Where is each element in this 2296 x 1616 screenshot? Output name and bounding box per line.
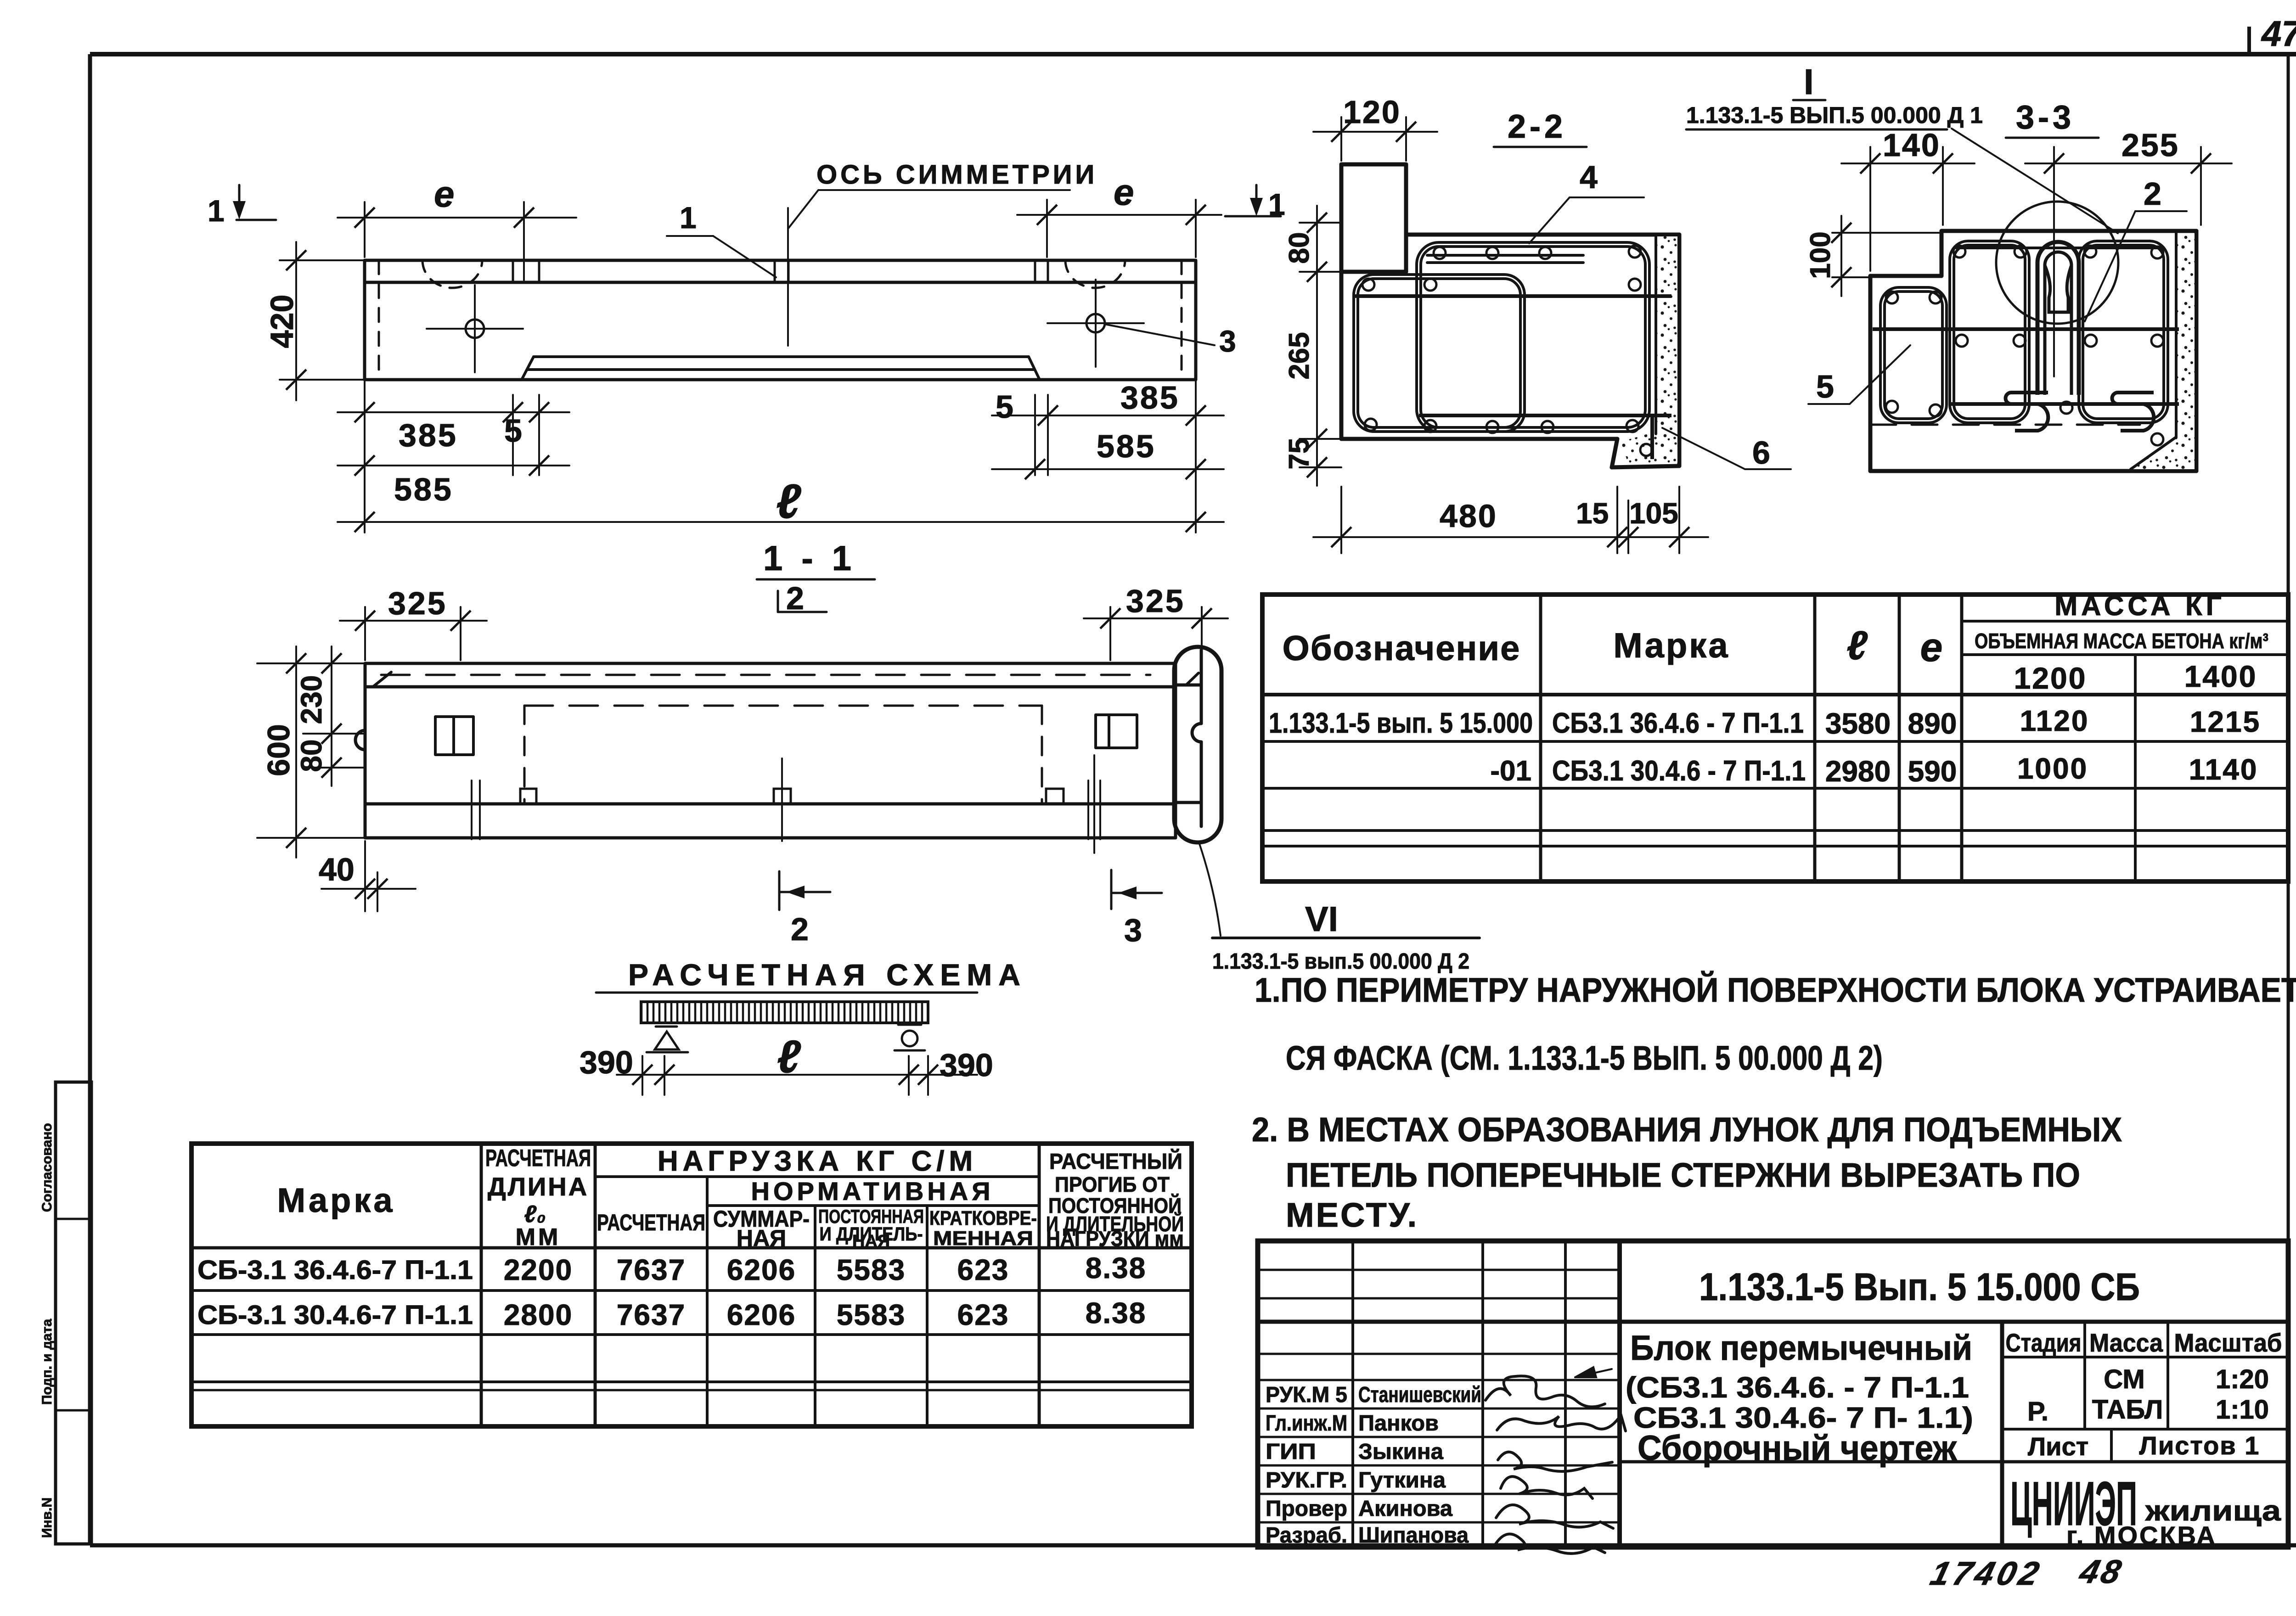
svg-text:325: 325 (1126, 583, 1185, 619)
svg-text:РУК.ГР.: РУК.ГР. (1266, 1468, 1347, 1493)
section 1-1: recess boxes (435, 715, 1137, 755)
svg-text:6: 6 (1752, 435, 1770, 471)
scheme dims 390 L 390 (580, 1031, 993, 1095)
svg-text:390: 390 (940, 1047, 993, 1083)
section 3-3 rebar loops (1880, 287, 1947, 423)
svg-text:Стадия: Стадия (2006, 1328, 2082, 1357)
section 1-1: left notch (355, 730, 365, 750)
svg-text:-01: -01 (1490, 755, 1531, 787)
svg-text:600: 600 (261, 724, 296, 776)
dim e (right) (1017, 172, 1221, 257)
svg-text:МАССА КГ: МАССА КГ (2054, 590, 2225, 621)
small leader arrow above signatures (1575, 1367, 1612, 1377)
section 2-2 rebar: left loop (1354, 275, 1525, 432)
svg-text:265: 265 (1283, 332, 1315, 379)
dims 480,15,105 (bottom of 2-2) (1313, 487, 1708, 553)
handwritten archive numbers (1927, 1555, 2046, 1592)
title block outer (1258, 1241, 2288, 1547)
section 1-1: dashed hidden edges (381, 675, 1150, 804)
svg-text:Панков: Панков (1358, 1411, 1439, 1436)
svg-text:Разраб.: Разраб. (1266, 1523, 1347, 1548)
leader to node VI label (1199, 844, 1221, 936)
dim 420 (264, 242, 365, 400)
label 6 with leader (1662, 428, 1791, 471)
dim 325 (left) (340, 585, 487, 660)
section 3-3 dashed bottom line (1870, 424, 2140, 426)
расчетная схема title (596, 958, 1027, 993)
dim 140 (top of 3-3) (1841, 127, 1975, 271)
svg-text:325: 325 (388, 585, 447, 621)
section 2-2 rebar: vertical bar at right notch (1650, 415, 1654, 459)
svg-text:2. В МЕСТАХ ОБРАЗОВАНИЯ ЛУН: 2. В МЕСТАХ ОБРАЗОВАНИЯ ЛУНОК ДЛЯ ПОДЪЕМ… (1252, 1111, 2122, 1149)
svg-text:3580: 3580 (1825, 707, 1891, 740)
svg-text:1120: 1120 (2020, 704, 2089, 737)
svg-text:3: 3 (1219, 324, 1236, 358)
svg-text:ГИП: ГИП (1266, 1440, 1316, 1464)
svg-text:г. МОСКВА: г. МОСКВА (2066, 1521, 2217, 1550)
svg-text:Блок перемычечный: Блок перемычечный (1630, 1329, 1972, 1368)
svg-text:e: e (1114, 172, 1134, 213)
dim 40 (bottom left) (319, 841, 416, 911)
svg-text:5583: 5583 (837, 1298, 906, 1331)
svg-text:8.38: 8.38 (1086, 1296, 1147, 1330)
label 5 with leader (1808, 345, 1910, 404)
svg-text:230: 230 (295, 675, 328, 724)
label 3 with leader (1107, 324, 1236, 358)
svg-text:623: 623 (957, 1253, 1009, 1286)
svg-text:80: 80 (1283, 232, 1315, 264)
svg-text:1.133.1-5 Вып. 5 15.000 СБ: 1.133.1-5 Вып. 5 15.000 СБ (1699, 1265, 2140, 1308)
svg-text:СБ3.1 30.4.6 - 7 П-1.1: СБ3.1 30.4.6 - 7 П-1.1 (1552, 755, 1806, 787)
view title 1-1 (757, 539, 875, 579)
svg-text:Сборочный чертеж: Сборочный чертеж (1638, 1429, 1957, 1468)
label 1 with leader (left) (667, 201, 776, 277)
elevation: chamfer strip (522, 357, 1040, 380)
section 3-3 concrete outline (1870, 231, 2196, 471)
svg-text:МЕСТУ.: МЕСТУ. (1286, 1196, 1418, 1234)
svg-text:СБ-3.1 36.4.6-7 П-1.1: СБ-3.1 36.4.6-7 П-1.1 (197, 1255, 473, 1285)
svg-text:1.ПО ПЕРИМЕТРУ НАРУЖНОЙ ПОВЕР: 1.ПО ПЕРИМЕТРУ НАРУЖНОЙ ПОВЕРХНОСТИ БЛОК… (1255, 971, 2296, 1009)
svg-text:75: 75 (1283, 438, 1315, 470)
svg-text:2200: 2200 (504, 1253, 573, 1286)
svg-text:6206: 6206 (727, 1298, 796, 1331)
svg-text:1:20: 1:20 (2216, 1364, 2269, 1394)
section 3-3 stipple band (2131, 233, 2195, 469)
svg-text:1.133.1-5 вып.5 00.000 Д 2: 1.133.1-5 вып.5 00.000 Д 2 (1212, 949, 1469, 974)
svg-text:МЕННАЯ: МЕННАЯ (933, 1227, 1033, 1250)
dims 80,265,75 (left of 2-2) (1283, 206, 1341, 486)
svg-text:140: 140 (1883, 127, 1941, 163)
section mark 3 (bottom right) (1111, 870, 1162, 948)
svg-text:СМ: СМ (2104, 1364, 2144, 1394)
svg-text:НОРМАТИВНАЯ: НОРМАТИВНАЯ (751, 1177, 994, 1206)
label 2 with leader (2085, 176, 2187, 321)
svg-text:47: 47 (2261, 13, 2296, 54)
расчетная схема beam with load hatch (641, 1002, 928, 1023)
svg-text:Масштаб: Масштаб (2174, 1328, 2282, 1357)
svg-text:e: e (1920, 624, 1943, 670)
section mark 1 (top left) (208, 185, 276, 228)
page number 47 box top right (2249, 13, 2296, 54)
svg-text:Станишевский: Станишевский (1358, 1383, 1481, 1407)
svg-text:РАСЧЕТНЫЙ: РАСЧЕТНЫЙ (1049, 1149, 1182, 1174)
svg-text:I: I (1804, 62, 1814, 102)
svg-text:1: 1 (208, 194, 225, 228)
svg-text:Марка: Марка (1613, 626, 1729, 665)
section 3-3 bottom bar (1950, 402, 2179, 406)
svg-text:2: 2 (786, 580, 804, 616)
svg-text:Марка: Марка (277, 1181, 395, 1219)
svg-text:1215: 1215 (2190, 705, 2261, 738)
svg-text:890: 890 (1908, 707, 1957, 740)
svg-text:ОСЬ СИММЕТРИИ: ОСЬ СИММЕТРИИ (816, 160, 1097, 190)
left support (pinned) (647, 1027, 688, 1052)
svg-text:НАЯ: НАЯ (737, 1225, 786, 1251)
svg-text:7637: 7637 (617, 1298, 686, 1331)
section 2-2 rebar cross-section circles (1362, 246, 1652, 456)
svg-text:2800: 2800 (504, 1298, 573, 1331)
svg-text:480: 480 (1440, 498, 1497, 534)
svg-text:НАГРУЗКИ мм: НАГРУЗКИ мм (1046, 1227, 1184, 1251)
svg-text:ОБЪЕМНАЯ МАССА БЕТОНА кг/м³: ОБЪЕМНАЯ МАССА БЕТОНА кг/м³ (1975, 629, 2268, 653)
svg-text:Р.: Р. (2027, 1397, 2048, 1426)
section 3-3 title (2006, 99, 2099, 138)
dim L (total) (338, 475, 1224, 532)
elevation view: lintel block outline (365, 260, 1196, 380)
svg-text:СБ3.1 36.4.6 - 7 П-1.1: СБ3.1 36.4.6 - 7 П-1.1 (1552, 707, 1804, 739)
svg-text:420: 420 (264, 295, 300, 348)
svg-text:17402: 17402 (1927, 1555, 2046, 1592)
detail circle (node I) (1996, 202, 2118, 324)
elevation: lifting loop recess arcs (dashed) (422, 260, 482, 288)
dim e (left) (338, 174, 576, 280)
section 2-2 title (1494, 108, 1587, 147)
label 4 with leader (1529, 159, 1644, 243)
svg-text:5583: 5583 (837, 1253, 906, 1286)
svg-text:1400: 1400 (2184, 659, 2257, 693)
svg-text:40: 40 (319, 852, 355, 887)
svg-text:6206: 6206 (727, 1253, 796, 1286)
svg-text:ДЛИНА: ДЛИНА (488, 1172, 589, 1201)
svg-text:1000: 1000 (2017, 752, 2088, 785)
section 1-1 view outline (365, 663, 1176, 838)
svg-text:Инв.N: Инв.N (39, 1498, 55, 1538)
svg-text:Шипанова: Шипанова (1358, 1523, 1469, 1548)
svg-text:(СБ3.1 36.4.6. - 7 П-1.1: (СБ3.1 36.4.6. - 7 П-1.1 (1626, 1371, 1969, 1404)
svg-text:Зыкина: Зыкина (1358, 1440, 1443, 1464)
svg-text:НАГРУЗКА КГ С/М: НАГРУЗКА КГ С/М (658, 1145, 977, 1177)
svg-text:ℓ: ℓ (776, 475, 801, 528)
svg-text:Согласовано: Согласовано (39, 1123, 55, 1212)
main parts table (1262, 595, 2288, 881)
section 2-2 stipple band (right) (1621, 236, 1677, 463)
svg-text:80: 80 (295, 739, 328, 772)
section mark 1 (top right) (1225, 185, 1285, 221)
svg-text:385: 385 (1120, 380, 1180, 415)
section 3-3 long horizontal bar (1873, 327, 2179, 331)
section 3-3 J-hooks (2006, 393, 2154, 431)
svg-text:РАСЧЕТНАЯ: РАСЧЕТНАЯ (597, 1210, 705, 1235)
svg-text:ПЕТЕЛЬ ПОПЕРЕЧНЫЕ СТЕРЖНИ В: ПЕТЕЛЬ ПОПЕРЕЧНЫЕ СТЕРЖНИ ВЫРЕЗАТЬ ПО (1286, 1156, 2080, 1194)
node VI label (1212, 900, 1480, 974)
svg-text:1:10: 1:10 (2216, 1395, 2269, 1425)
dims 600,230,80 (left of section 1-1) (257, 646, 365, 858)
svg-text:VI: VI (1305, 900, 1338, 939)
section 2-2 rebar: outer big loop (1417, 242, 1649, 432)
centre line through loop (2053, 163, 2055, 376)
section 1-1: joint double lines (472, 755, 1100, 853)
svg-text:2-2: 2-2 (1508, 108, 1566, 145)
svg-text:390: 390 (580, 1044, 633, 1080)
svg-text:ММ: ММ (516, 1224, 561, 1251)
svg-text:Обозначение: Обозначение (1283, 629, 1521, 668)
svg-text:ℓ: ℓ (1846, 623, 1868, 668)
svg-text:НАЯ: НАЯ (852, 1232, 890, 1251)
elevation: hole centre marks (427, 285, 523, 372)
svg-text:Гуткина: Гуткина (1358, 1468, 1446, 1493)
svg-text:СБ-3.1 30.4.6-7 П-1.1: СБ-3.1 30.4.6-7 П-1.1 (197, 1300, 473, 1330)
svg-text:Провер: Провер (1266, 1497, 1347, 1521)
dim 100 (left of 3-3) (1805, 216, 1941, 296)
svg-text:8.38: 8.38 (1086, 1251, 1147, 1285)
svg-text:4: 4 (1580, 159, 1598, 195)
load table (191, 1144, 1192, 1426)
section 1-1: end capsule (node VI) (1174, 647, 1221, 842)
svg-text:1200: 1200 (2014, 661, 2087, 695)
dims 385,5,585 (left) (338, 380, 569, 533)
svg-text:585: 585 (394, 471, 453, 507)
svg-text:5: 5 (1816, 369, 1834, 404)
svg-text:СЯ ФАСКА (СМ. 1.133.1-5 ВЫП.: СЯ ФАСКА (СМ. 1.133.1-5 ВЫП. 5 00.000 Д … (1286, 1039, 1883, 1077)
svg-text:585: 585 (1097, 428, 1156, 464)
dim 325 (right) (1084, 583, 1228, 668)
elevation: centre line (787, 208, 789, 346)
svg-text:Масса: Масса (2089, 1328, 2163, 1357)
svg-text:РАСЧЕТНАЯ: РАСЧЕТНАЯ (485, 1145, 591, 1172)
svg-text:Гл.инж.М: Гл.инж.М (1266, 1411, 1347, 1436)
svg-text:2980: 2980 (1825, 755, 1891, 788)
node I label and doc ref (1686, 62, 2118, 233)
signatures (cursive squiggles) (1486, 1376, 1626, 1554)
section 2-2 rebar: long bottom bar (1419, 414, 1671, 417)
svg-text:2: 2 (2144, 176, 2161, 212)
section 1-1: bearing tabs (520, 789, 536, 804)
svg-text:ПРОГИБ ОТ: ПРОГИБ ОТ (1055, 1173, 1170, 1196)
section 2-2 rebar: long mid bar (1355, 294, 1671, 298)
svg-text:105: 105 (1629, 497, 1678, 530)
svg-text:РУК.М 5: РУК.М 5 (1266, 1383, 1347, 1407)
svg-text:5: 5 (996, 389, 1013, 425)
svg-text:385: 385 (399, 417, 458, 453)
svg-text:590: 590 (1908, 755, 1957, 788)
section 3-3 top bar between loops (1956, 247, 2158, 249)
section mark 2 (top, above 1-1 view) (778, 580, 827, 616)
section 2-2 rebar: top short bar pair (1427, 255, 1583, 263)
svg-text:Акинова: Акинова (1358, 1497, 1452, 1521)
svg-text:15: 15 (1576, 497, 1609, 530)
section 2-2 concrete outline (1341, 164, 1679, 467)
svg-text:e: e (434, 174, 455, 214)
svg-text:623: 623 (957, 1298, 1009, 1331)
svg-text:РАСЧЕТНАЯ СХЕМА: РАСЧЕТНАЯ СХЕМА (628, 958, 1027, 992)
elevation: dashed end joints (378, 260, 380, 380)
svg-text:1.133.1-5 ВЫП.5 00.000 Д 1: 1.133.1-5 ВЫП.5 00.000 Д 1 (1686, 102, 1983, 128)
section mark 2 (bottom) (779, 871, 830, 947)
elevation: flange joint tick pairs (513, 260, 1048, 282)
svg-text:ℓ: ℓ (777, 1031, 801, 1083)
svg-text:1.133.1-5 вып. 5 15.000: 1.133.1-5 вып. 5 15.000 (1269, 707, 1533, 739)
svg-text:100: 100 (1805, 231, 1836, 279)
svg-text:255: 255 (2122, 127, 2179, 163)
dim 120 (top of 2-2) (1313, 94, 1437, 161)
svg-text:3: 3 (1124, 912, 1142, 948)
svg-text:Листов 1: Листов 1 (2139, 1431, 2260, 1460)
svg-text:ТАБЛ: ТАБЛ (2092, 1395, 2163, 1425)
section 3-3 lifting loop (петля) (2037, 242, 2079, 395)
svg-text:2: 2 (791, 911, 809, 947)
svg-text:7637: 7637 (617, 1253, 686, 1286)
svg-text:1140: 1140 (2189, 753, 2258, 786)
svg-text:5: 5 (504, 413, 522, 449)
svg-text:1 - 1: 1 - 1 (763, 539, 856, 578)
dim 255 (top of 3-3) (2025, 127, 2232, 225)
section 3-3 rebar circles (1886, 246, 2163, 445)
svg-text:Лист: Лист (2028, 1432, 2088, 1461)
right support (roller) (895, 1025, 925, 1050)
svg-text:120: 120 (1343, 94, 1401, 130)
left margin strip boxes (39, 1082, 91, 1544)
svg-text:КРАТКОВРЕ-: КРАТКОВРЕ- (929, 1207, 1037, 1229)
dims 5,385,585 (right) (992, 380, 1224, 533)
svg-text:3-3: 3-3 (2016, 99, 2075, 136)
svg-text:1: 1 (680, 201, 697, 235)
svg-text:Подп. и дата: Подп. и дата (39, 1319, 55, 1405)
